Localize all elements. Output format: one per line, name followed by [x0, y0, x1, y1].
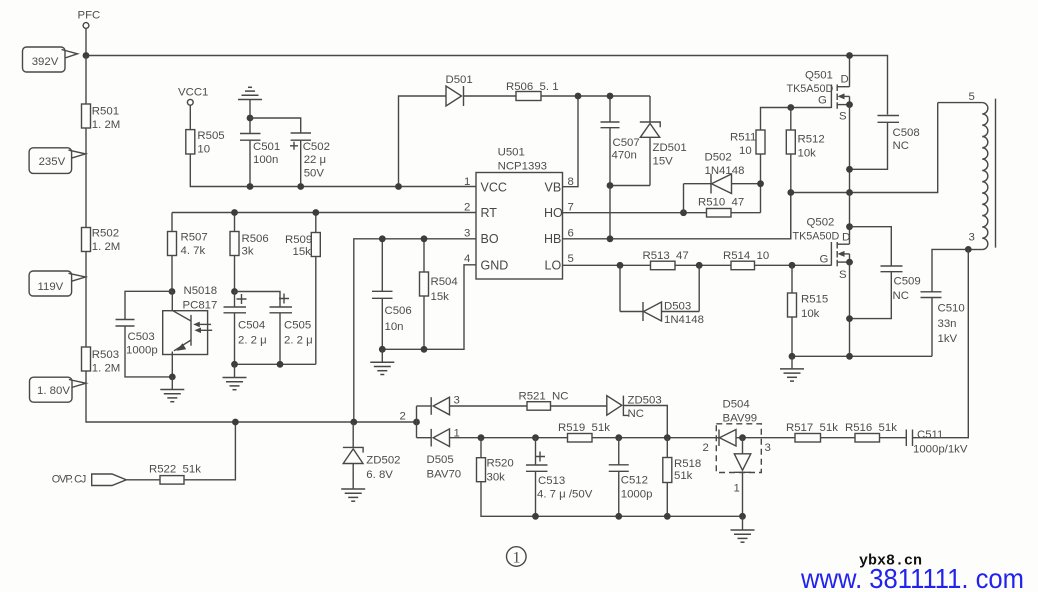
- svg-text:TK5A50D: TK5A50D: [793, 231, 840, 243]
- node junction pin3: [965, 246, 972, 253]
- svg-text:ZD501: ZD501: [653, 142, 687, 154]
- svg-text:R507: R507: [181, 232, 208, 244]
- svg-text:C509: C509: [894, 276, 921, 288]
- capacitor C512 1000p: [609, 438, 653, 517]
- svg-text:R521 NC: R521 NC: [519, 391, 569, 403]
- resistor R502 1.2M: [82, 228, 121, 254]
- transformer primary winding: [938, 91, 996, 250]
- optocoupler U? PC817: [163, 292, 218, 377]
- svg-text:1kV: 1kV: [938, 333, 958, 345]
- resistor R512 10k: [786, 104, 824, 239]
- wire C501 bottom: [249, 140, 251, 186]
- wire lower feedback row: [481, 437, 716, 439]
- svg-text:3: 3: [464, 228, 470, 240]
- svg-text:1N4148: 1N4148: [664, 314, 704, 326]
- wire R505 to VCC rail: [190, 154, 476, 187]
- resistor R501 1.2M: [82, 104, 121, 131]
- svg-text:PC817: PC817: [183, 300, 218, 312]
- svg-text:R515: R515: [801, 294, 828, 306]
- svg-text:10: 10: [197, 144, 210, 156]
- wire LO row: [563, 264, 651, 266]
- svg-text:R517 51k: R517 51k: [786, 422, 838, 434]
- svg-text:GND: GND: [481, 259, 509, 273]
- wire pin3 down to C511 row: [913, 249, 969, 437]
- wire left bus vertical: [86, 56, 417, 423]
- wire top bus 392V rail: [86, 56, 888, 115]
- diode D501: [446, 74, 517, 106]
- svg-text:C510: C510: [938, 303, 965, 315]
- svg-text:C504: C504: [238, 320, 265, 332]
- svg-text:R503: R503: [92, 349, 119, 361]
- capacitor C513 4.7u/50V: [526, 438, 593, 517]
- diode D505 pin1 lower BAV70: [417, 428, 482, 481]
- resistor R516 51k: [845, 422, 906, 442]
- svg-text:R502: R502: [92, 228, 119, 240]
- node OVP.CJ input flag: [52, 474, 127, 486]
- resistor R507 4.7k: [168, 213, 208, 292]
- svg-text:OVP. CJ: OVP. CJ: [52, 474, 87, 486]
- svg-text:C508: C508: [893, 127, 920, 139]
- resistor R522 51k: [149, 464, 201, 485]
- wire source row to transformer: [791, 103, 938, 193]
- node junction 392V: [83, 52, 90, 59]
- resistor R520 30k: [477, 438, 743, 517]
- svg-text:6. 8V: 6. 8V: [366, 469, 393, 481]
- capacitor C509 NC: [850, 227, 921, 319]
- svg-text:RT: RT: [481, 206, 498, 220]
- wire Q501 source column: [849, 105, 851, 193]
- svg-text:VCC1: VCC1: [178, 87, 208, 99]
- wire Q502 drain column: [849, 193, 851, 245]
- svg-text:R506: R506: [242, 233, 269, 245]
- svg-text:U501: U501: [498, 147, 525, 159]
- svg-text:Q502: Q502: [807, 217, 835, 229]
- svg-text:15k: 15k: [431, 291, 450, 303]
- ground below ZD502: [341, 489, 365, 501]
- wire VB column: [563, 96, 579, 187]
- diode D502 1N4148: [684, 152, 761, 213]
- diode D505 pin3 upper: [417, 395, 528, 415]
- svg-text:R506 5. 1: R506 5. 1: [506, 81, 559, 93]
- svg-text:NC: NC: [893, 140, 909, 152]
- wire BO row: [354, 239, 476, 422]
- svg-text:D503: D503: [664, 301, 691, 313]
- wire HB row: [563, 193, 791, 239]
- svg-text:10: 10: [739, 145, 752, 157]
- node junction emitter/ground: [169, 374, 176, 381]
- svg-text:BAV70: BAV70: [427, 469, 462, 481]
- svg-text:VCC: VCC: [481, 181, 507, 195]
- svg-text:22 μ: 22 μ: [304, 154, 326, 166]
- capacitor C501 100n: [240, 134, 280, 167]
- svg-text:5: 5: [969, 91, 975, 103]
- wire Q502 source column: [849, 262, 851, 356]
- svg-text:1: 1: [513, 550, 521, 567]
- wire C502 bottom: [300, 140, 302, 186]
- svg-text:1: 1: [464, 176, 470, 188]
- svg-text:HO: HO: [544, 206, 563, 220]
- svg-text:D504: D504: [723, 399, 750, 411]
- svg-text:R514 10: R514 10: [723, 250, 769, 262]
- svg-text:15V: 15V: [653, 156, 674, 168]
- svg-text:7: 7: [568, 202, 574, 214]
- capacitor C506 10n: [372, 239, 412, 349]
- svg-text:BO: BO: [481, 232, 499, 246]
- wire PFC to top bus: [85, 28, 87, 55]
- svg-text:C506: C506: [385, 305, 412, 317]
- capacitor C510 33n 1kV: [921, 249, 969, 356]
- capacitor C507 470n: [601, 96, 640, 186]
- svg-text:1: 1: [454, 428, 460, 440]
- svg-text:3: 3: [765, 442, 771, 454]
- wire OVP to R522: [126, 479, 160, 481]
- ground below D504: [731, 516, 755, 542]
- svg-text:NCP1393: NCP1393: [498, 160, 547, 172]
- resistor R515 10k: [788, 262, 829, 356]
- svg-text:1. 80V: 1. 80V: [37, 385, 70, 397]
- resistor R506 3k: [230, 213, 269, 292]
- svg-text:4. 7k: 4. 7k: [181, 245, 206, 257]
- wire RT row: [172, 212, 476, 214]
- svg-text:D502: D502: [705, 152, 732, 164]
- node junction C501 top: [247, 115, 254, 122]
- svg-text:BAV99: BAV99: [723, 413, 758, 425]
- zener ZD501 15V: [640, 96, 687, 186]
- svg-text:R520: R520: [487, 458, 514, 470]
- resistor R506 5.1: [506, 81, 650, 101]
- capacitor C502 22u 50V: [290, 133, 330, 179]
- svg-text:C505: C505: [284, 320, 311, 332]
- svg-text:D: D: [842, 232, 850, 244]
- wire VCC1 to R505: [189, 105, 191, 129]
- svg-text:470n: 470n: [612, 150, 637, 162]
- svg-text:R519 51k: R519 51k: [558, 422, 610, 434]
- ground below C504: [223, 364, 247, 389]
- svg-text:R513 47: R513 47: [643, 250, 689, 262]
- node junction D505 common: [413, 419, 420, 426]
- ground inverted above C501: [238, 87, 262, 99]
- callout 235V: [29, 148, 85, 174]
- svg-text:R512: R512: [798, 134, 825, 146]
- svg-text:1. 2M: 1. 2M: [92, 363, 121, 375]
- svg-text:4. 7 μ /50V: 4. 7 μ /50V: [537, 489, 593, 501]
- svg-text:C511: C511: [917, 429, 943, 441]
- svg-text:R504: R504: [431, 276, 458, 288]
- resistor R510 47: [698, 197, 761, 218]
- svg-text:S: S: [839, 269, 847, 281]
- svg-text:NC: NC: [628, 408, 644, 420]
- svg-text:3: 3: [969, 232, 975, 244]
- capacitor C505 2.2u: [235, 292, 313, 365]
- diode D504 BAV99 upper: [703, 399, 796, 473]
- resistor R513 47: [643, 250, 732, 270]
- resistor R511 10: [730, 130, 765, 157]
- svg-text:10n: 10n: [385, 321, 404, 333]
- svg-text:50V: 50V: [304, 167, 325, 179]
- svg-text:ZD502: ZD502: [366, 455, 400, 467]
- node junction N5018: [169, 288, 176, 295]
- svg-text:C507: C507: [613, 137, 640, 149]
- svg-text:R518: R518: [674, 458, 701, 470]
- svg-text:C503: C503: [128, 331, 155, 343]
- svg-text:1000p/1kV: 1000p/1kV: [913, 444, 968, 456]
- capacitor C503 1000p: [116, 291, 173, 377]
- wire R511 column: [761, 108, 832, 213]
- svg-text:VB: VB: [545, 181, 562, 195]
- svg-text:D: D: [841, 74, 849, 86]
- svg-text:R516 51k: R516 51k: [845, 422, 897, 434]
- svg-text:2: 2: [464, 202, 470, 214]
- svg-text:G: G: [820, 254, 829, 266]
- svg-text:R510 47: R510 47: [698, 197, 744, 209]
- wire VCC D501 branch: [399, 96, 447, 187]
- svg-text:PFC: PFC: [78, 10, 101, 22]
- callout 119V: [29, 271, 85, 296]
- svg-text:LO: LO: [545, 259, 562, 273]
- svg-text:1000p: 1000p: [126, 345, 158, 357]
- svg-text:C501: C501: [253, 141, 280, 153]
- svg-text:3: 3: [454, 395, 460, 407]
- capacitor C511 1000p/1kV: [906, 429, 968, 456]
- svg-text:R505: R505: [197, 130, 224, 142]
- zener ZD502 6.8V: [343, 422, 401, 489]
- svg-text:Q501: Q501: [805, 70, 833, 82]
- capacitor C504 2.2u: [224, 288, 267, 364]
- svg-text:S: S: [839, 111, 847, 123]
- svg-text:N5018: N5018: [184, 285, 218, 297]
- svg-text:C502: C502: [303, 141, 330, 153]
- svg-text:D501: D501: [446, 74, 473, 86]
- svg-text:www. 3811111. com: www. 3811111. com: [800, 563, 1024, 592]
- ground below C506: [370, 349, 394, 374]
- svg-text:2. 2 μ: 2. 2 μ: [284, 335, 313, 347]
- wire C507/ZD501 bottom to HB: [610, 185, 650, 187]
- resistor R505 10: [186, 130, 225, 156]
- svg-text:30k: 30k: [487, 472, 506, 484]
- svg-text:100n: 100n: [253, 154, 278, 166]
- svg-text:10k: 10k: [801, 308, 820, 320]
- svg-text:51k: 51k: [674, 470, 693, 482]
- svg-text:HB: HB: [544, 232, 561, 246]
- svg-text:R501: R501: [92, 106, 119, 118]
- op-amp U501 NCP1393 controller IC: [476, 147, 563, 280]
- wire R522 to bottom-left rail: [184, 422, 235, 480]
- ground below PC817: [160, 377, 184, 402]
- node junction R522/rail: [232, 419, 239, 426]
- svg-text:1. 2M: 1. 2M: [92, 241, 121, 253]
- svg-text:235V: 235V: [39, 156, 66, 168]
- svg-text:2. 2 μ: 2. 2 μ: [238, 335, 267, 347]
- ground below R515: [780, 356, 804, 381]
- svg-text:1. 2M: 1. 2M: [92, 119, 121, 131]
- resistor R521 NC: [519, 391, 607, 411]
- resistor R504 15k: [420, 239, 458, 349]
- resistor R518 51k: [663, 438, 701, 517]
- resistor R514 10: [723, 250, 831, 270]
- diode D504 lower to ground: [734, 438, 751, 517]
- svg-text:R509: R509: [285, 234, 312, 246]
- wire ground to C501 top: [249, 100, 251, 134]
- svg-text:392V: 392V: [32, 56, 59, 68]
- svg-text:15k: 15k: [293, 246, 312, 258]
- svg-text:5: 5: [568, 253, 574, 265]
- svg-text:R511: R511: [730, 132, 756, 144]
- svg-text:1000p: 1000p: [621, 489, 653, 501]
- resistor R517 51k: [786, 422, 855, 442]
- wire C501 top to C502 top: [250, 118, 301, 133]
- transistor Q502 TK5A50D mosfet: [793, 217, 853, 282]
- svg-text:R522 51k: R522 51k: [149, 464, 201, 476]
- svg-text:6: 6: [568, 228, 574, 240]
- svg-text:G: G: [818, 95, 827, 107]
- wire lower source rail: [792, 355, 932, 357]
- svg-text:ZD503: ZD503: [628, 395, 662, 407]
- svg-text:2: 2: [400, 411, 406, 423]
- resistor R503 1.2M: [82, 347, 121, 375]
- svg-text:TK5A50D: TK5A50D: [787, 83, 834, 95]
- svg-text:C513: C513: [538, 475, 565, 487]
- wire HO row: [563, 212, 707, 214]
- callout 392V: [23, 47, 78, 72]
- svg-text:C512: C512: [621, 475, 648, 487]
- svg-text:NC: NC: [893, 290, 909, 302]
- capacitor C508 NC: [850, 116, 920, 170]
- svg-text:1: 1: [734, 483, 740, 495]
- svg-text:119V: 119V: [38, 281, 64, 293]
- svg-text:3k: 3k: [242, 246, 254, 258]
- transistor Q501 TK5A50D mosfet: [787, 56, 853, 123]
- resistor R509 15k: [285, 213, 320, 365]
- node circled 1 page marker: [507, 547, 527, 567]
- svg-text:2: 2: [703, 442, 709, 454]
- svg-text:4: 4: [464, 253, 470, 265]
- zener ZD503 NC: [607, 395, 668, 438]
- diode D503 1N4148: [620, 265, 704, 326]
- wire C504/C505/R509 bottom rail: [235, 363, 316, 365]
- svg-text:33n: 33n: [938, 318, 957, 330]
- svg-text:D505: D505: [427, 454, 454, 466]
- svg-text:10k: 10k: [798, 148, 817, 160]
- callout 1.80V: [30, 377, 86, 402]
- wire GND pin 4 routing: [382, 265, 476, 350]
- resistor R519 51k: [558, 422, 610, 442]
